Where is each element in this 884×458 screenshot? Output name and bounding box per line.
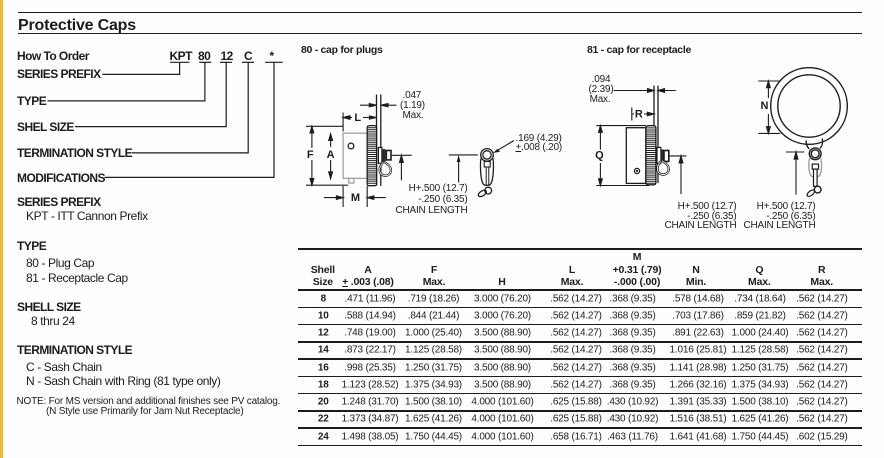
- ring clip bottom hook: [814, 186, 821, 193]
- chain hook loop on 81-cap: [657, 161, 668, 175]
- clip slot: [486, 167, 489, 186]
- 80-cap lip lines: [377, 95, 381, 186]
- 80-cap knurl hatch: [368, 128, 377, 183]
- ring: chain length annotation: [757, 201, 816, 212]
- svg-text:R: R: [635, 108, 643, 120]
- 81-cap body: [626, 128, 646, 184]
- drawing headings: [301, 45, 383, 57]
- table body: [321, 293, 326, 304]
- note: [17, 396, 281, 407]
- top rule: [18, 12, 862, 14]
- M dimension: [324, 186, 386, 207]
- 81-cap chain dim: [669, 156, 686, 194]
- 81-cap lip lines: [654, 86, 658, 183]
- svg-text:L: L: [354, 112, 361, 124]
- title underline: [18, 33, 862, 35]
- 81-cap: chain length annotation: [678, 201, 737, 212]
- 80-cap body: [343, 133, 367, 178]
- L dimension: [343, 113, 377, 132]
- yellow edge stripe: [0, 0, 3, 458]
- chain snap on 80-cap: [378, 148, 382, 164]
- shell size section: [17, 301, 81, 314]
- clip body: [480, 159, 493, 186]
- ring inner circle: [778, 75, 840, 137]
- 80-cap chain dim: [391, 155, 412, 180]
- ring clip link circle: [809, 148, 821, 160]
- how to order code: [17, 50, 89, 63]
- chain hook loop on 80-cap: [380, 162, 391, 176]
- R dimension: [632, 108, 652, 121]
- data table rules: [298, 248, 862, 250]
- connector: shel size: [75, 62, 226, 126]
- ring clip link bar: [814, 169, 818, 186]
- 80-cap: chain length annotation: [409, 183, 468, 194]
- 80-cap bottom notch: [349, 178, 354, 183]
- 80-cap knurl: [367, 126, 376, 186]
- connector: series prefix: [102, 62, 179, 74]
- table header: [311, 264, 335, 276]
- 81-cap: .094 annotation: [592, 74, 611, 85]
- .047 dimension arrows: [360, 104, 397, 106]
- connector: modifications: [105, 62, 274, 177]
- termination style section: [17, 344, 132, 357]
- clip ring: [481, 149, 494, 162]
- 81-cap knurl: [646, 126, 656, 185]
- chain snap on 81-cap: [657, 147, 661, 163]
- A dimension: [330, 138, 332, 174]
- ring chain dim: [786, 152, 804, 195]
- 80-cap hole circle: [348, 143, 354, 149]
- 81-cap hole dot: [634, 168, 639, 173]
- svg-text:Q: Q: [595, 149, 604, 161]
- svg-text:F: F: [307, 149, 314, 161]
- ring outer circle: [771, 68, 848, 145]
- ring clip body: [809, 158, 822, 177]
- leader to .169: [496, 141, 515, 152]
- ring clip crimp: [812, 164, 818, 169]
- order labels: [17, 68, 101, 81]
- 80-cap: .047 annotation: [403, 90, 422, 101]
- page title: [18, 17, 136, 35]
- F dimension: [306, 126, 348, 185]
- connector: termination style: [132, 62, 248, 153]
- svg-text:M: M: [351, 192, 360, 204]
- type section: [17, 240, 46, 253]
- series prefix section: [17, 196, 101, 209]
- N dimension: [758, 81, 780, 133]
- svg-text:N: N: [761, 100, 769, 112]
- svg-text:A: A: [327, 149, 335, 161]
- ring neck to clip: [806, 139, 822, 150]
- 80-cap: .169 annotation: [516, 133, 562, 144]
- clip bottom hook: [485, 187, 492, 194]
- Q dimension: [596, 126, 649, 186]
- clip crimp: [484, 162, 490, 168]
- code underlines: [170, 61, 189, 63]
- 81-cap knurl hatch: [646, 128, 655, 183]
- connector: type: [48, 62, 205, 101]
- .094 dimension arrows: [614, 90, 676, 92]
- clip chain dim: [449, 155, 478, 183]
